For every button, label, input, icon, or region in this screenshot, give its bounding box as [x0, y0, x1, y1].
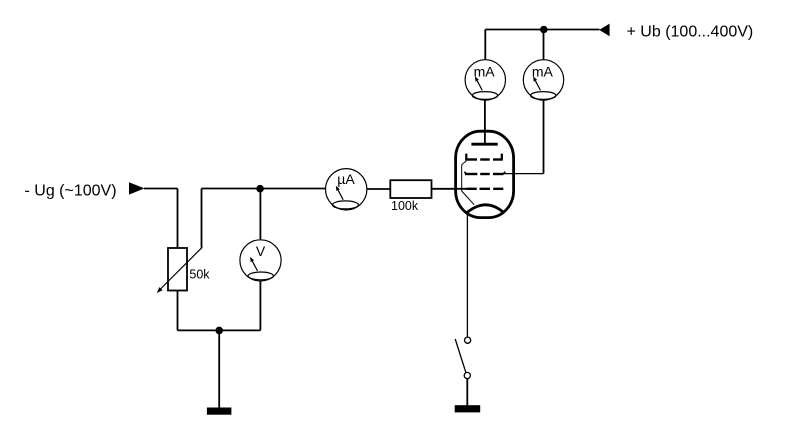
tube V1 envelope: [456, 131, 514, 217]
resistor R2 100k body: [390, 180, 431, 198]
meter mA2 screen: [523, 60, 563, 100]
meter mA1 anode: [465, 60, 505, 100]
wire mA2 up: [543, 30, 545, 60]
svg-text:+ Ub (100...400V): + Ub (100...400V): [627, 24, 754, 41]
tube grid g1: [467, 188, 504, 190]
microammeter uA: [326, 169, 367, 210]
svg-text:V: V: [256, 243, 266, 259]
wire g2 up to meter mA2: [543, 100, 545, 174]
wire uA to resistor: [367, 188, 390, 190]
wire bottom horizontal: [178, 329, 261, 331]
potentiometer wiper wire: [201, 189, 203, 248]
wire g2 out to right: [504, 173, 544, 175]
supply arrow Ub: [599, 24, 609, 37]
wire mA1 up: [484, 30, 486, 60]
wire switch to ground: [466, 379, 468, 406]
svg-text:100k: 100k: [391, 199, 419, 213]
wire resistor to tube grid: [432, 188, 468, 190]
wire cathode lead: [466, 212, 468, 337]
wire grid rail: [202, 188, 326, 190]
tube grid g3: [465, 154, 503, 160]
tube grid g2: [465, 172, 506, 174]
svg-text:50k: 50k: [189, 268, 210, 282]
tube cathode: [466, 205, 504, 214]
wire down to potentiometer top: [177, 189, 179, 249]
junction top rail: [540, 26, 548, 34]
wire voltmeter bottom: [259, 281, 261, 330]
wire top supply rail: [485, 29, 599, 31]
potentiometer arrow diagonal: [157, 247, 203, 293]
voltmeter V: [240, 240, 281, 281]
svg-text:mA: mA: [532, 64, 554, 80]
wire input horizontal: [144, 188, 178, 190]
node junction grid rail: [256, 185, 264, 193]
svg-text:mA: mA: [474, 64, 496, 80]
tube anode plate: [471, 143, 497, 146]
ground left: [207, 408, 232, 415]
svg-text:- Ug (~100V): - Ug (~100V): [25, 183, 117, 200]
switch S1: [455, 337, 471, 379]
wire potentiometer bottom: [177, 291, 179, 331]
ground right: [455, 405, 481, 412]
input arrow Ug: [129, 182, 145, 194]
wire to ground left: [218, 330, 220, 407]
junction bottom: [215, 327, 223, 335]
potentiometer R1 50k body: [168, 248, 187, 291]
wire anode lead: [484, 100, 486, 144]
svg-text:µA: µA: [337, 171, 355, 187]
tube g3 cathode link: [462, 161, 475, 205]
wire down to voltmeter: [259, 189, 261, 241]
